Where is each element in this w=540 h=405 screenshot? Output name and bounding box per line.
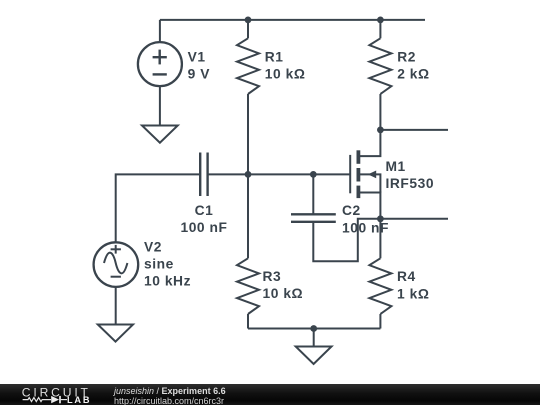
wire V1 top lead xyxy=(159,20,161,42)
logo resistor squiggle xyxy=(23,398,51,402)
svg-text:1 kΩ: 1 kΩ xyxy=(397,287,429,302)
footer title line xyxy=(114,386,226,396)
svg-text:IRF530: IRF530 xyxy=(386,176,435,191)
resistor R1 xyxy=(237,38,259,94)
resistor R2 xyxy=(369,38,391,94)
wire gate node down to R3 xyxy=(247,174,249,258)
wire R1 bottom to gate node xyxy=(247,94,249,174)
transistor M1 xyxy=(350,130,380,219)
svg-text:10 kHz: 10 kHz xyxy=(144,273,191,288)
wire R2 top lead xyxy=(379,20,381,38)
capacitor C2 xyxy=(291,214,336,222)
wire C1 to gate of M1 xyxy=(208,173,351,175)
wire R2 bottom to drain node xyxy=(379,94,381,130)
node bottom ground xyxy=(310,325,317,332)
svg-text:10 kΩ: 10 kΩ xyxy=(263,286,304,301)
svg-text:C2: C2 xyxy=(342,203,361,218)
svg-text:100 nF: 100 nF xyxy=(180,220,227,235)
wire R4 bottom lead xyxy=(379,314,381,329)
footer url line xyxy=(114,396,224,405)
svg-text:2 kΩ: 2 kΩ xyxy=(397,67,429,82)
node gate at C2 xyxy=(310,171,317,178)
wire C2 top lead xyxy=(312,174,314,214)
svg-text:V2: V2 xyxy=(144,239,162,254)
wire V1 bottom to ground xyxy=(159,86,161,125)
ground under V1 xyxy=(142,126,178,143)
logo diode xyxy=(51,396,59,403)
capacitor C1 xyxy=(200,153,207,197)
resistor R3 xyxy=(237,258,259,314)
svg-text:sine: sine xyxy=(144,256,174,271)
svg-text:R3: R3 xyxy=(263,269,282,284)
ground under V2 xyxy=(98,325,133,342)
svg-text:10 kΩ: 10 kΩ xyxy=(265,67,306,82)
voltage source V2 xyxy=(94,242,139,287)
node top rail at R1 xyxy=(245,17,252,24)
svg-text:LAB: LAB xyxy=(67,395,91,405)
wire V2 bottom to ground xyxy=(115,287,117,325)
svg-text:M1: M1 xyxy=(386,159,406,174)
ground bottom xyxy=(296,347,332,365)
wire drain output stub xyxy=(380,129,448,131)
voltage source V1 xyxy=(138,42,182,86)
wire top power rail xyxy=(160,19,425,21)
wire bottom rail xyxy=(248,328,380,330)
resistor R4 xyxy=(369,258,391,314)
svg-text:R4: R4 xyxy=(397,269,416,284)
wire C2 bottom to source node xyxy=(313,219,380,261)
wire source output stub xyxy=(380,218,448,220)
CircuitLab logo xyxy=(0,384,110,405)
svg-text:R2: R2 xyxy=(397,50,416,65)
svg-text:V1: V1 xyxy=(188,49,206,64)
wire source node down to R4 xyxy=(379,219,381,258)
wire R3 bottom lead xyxy=(247,314,249,329)
svg-text:100 nF: 100 nF xyxy=(342,220,389,235)
node source xyxy=(377,215,384,222)
node top rail at R2 xyxy=(377,17,384,24)
wire V2 top lead to C1 xyxy=(116,174,201,242)
svg-text:9 V: 9 V xyxy=(188,66,211,81)
svg-text:C1: C1 xyxy=(195,203,214,218)
footer bar xyxy=(0,384,540,405)
node gate at R1/R3 xyxy=(245,171,252,178)
wire bottom ground lead xyxy=(313,329,315,347)
node drain xyxy=(377,126,384,133)
wire R1 top lead xyxy=(247,20,249,38)
svg-text:R1: R1 xyxy=(265,50,284,65)
